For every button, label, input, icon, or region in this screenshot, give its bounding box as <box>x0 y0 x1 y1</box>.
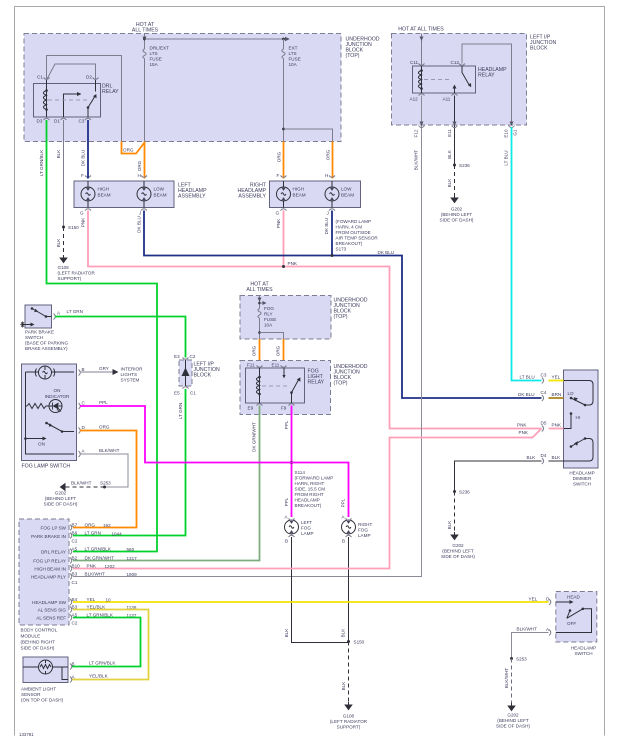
junction block internal arrow <box>185 360 187 386</box>
svg-text:B: B <box>285 539 288 544</box>
wire C1 to D2 inner loop <box>47 64 96 80</box>
svg-text:FOG: FOG <box>264 306 274 311</box>
svg-text:D4: D4 <box>541 453 547 458</box>
svg-text:LT GRN: LT GRN <box>85 531 101 536</box>
svg-text:PPL: PPL <box>99 400 108 405</box>
wire BLK/WHT headlamp switch to S253 <box>512 633 549 659</box>
ground G202 lower (behind left side of dash) <box>451 532 458 540</box>
svg-text:SYSTEM: SYSTEM <box>121 378 140 383</box>
svg-text:LOW: LOW <box>341 187 352 192</box>
svg-text:C11: C11 <box>410 60 419 65</box>
svg-text:RLY: RLY <box>264 312 273 317</box>
left fog lamp <box>285 520 299 534</box>
svg-text:C4: C4 <box>541 390 547 395</box>
BCM pin A5 lower <box>70 615 72 621</box>
svg-text:LIGHTS: LIGHTS <box>121 372 138 377</box>
feed arrow <box>143 37 147 42</box>
svg-text:G1: G1 <box>513 129 518 136</box>
fog relay mechanical link <box>262 385 288 387</box>
park brake actuator <box>23 324 32 326</box>
svg-text:HARN, 4 CM: HARN, 4 CM <box>336 225 363 230</box>
svg-text:F: F <box>277 173 280 178</box>
svg-text:B: B <box>72 662 75 667</box>
fog relay switch <box>284 368 299 403</box>
svg-text:B10: B10 <box>72 564 81 569</box>
svg-text:S253: S253 <box>100 481 111 486</box>
DRL relay mechanical link <box>48 99 88 101</box>
svg-text:BODY CONTROL: BODY CONTROL <box>21 628 58 633</box>
svg-text:HEADLAMP SW: HEADLAMP SW <box>32 600 67 605</box>
svg-text:560: 560 <box>127 547 135 552</box>
svg-text:C3: C3 <box>541 373 547 378</box>
wire PPL from F9 to left fog lamp <box>291 406 293 518</box>
svg-text:BLK: BLK <box>284 628 289 638</box>
svg-text:LT GRN: LT GRN <box>178 403 183 419</box>
svg-text:LT GRN/BLK: LT GRN/BLK <box>39 149 44 176</box>
indicator resistor <box>27 404 49 409</box>
svg-text:BLK/WHT: BLK/WHT <box>71 481 92 486</box>
right fog lamp <box>342 520 356 534</box>
svg-text:S236: S236 <box>459 163 470 168</box>
svg-text:DK GRN/WHT: DK GRN/WHT <box>252 422 257 452</box>
svg-text:(TOP): (TOP) <box>334 381 348 387</box>
relay K3 FOG LIGHT RELAY box <box>246 368 305 403</box>
indicator LED <box>49 400 63 413</box>
wire ORG to right high beam pin F <box>283 142 285 179</box>
svg-text:S150: S150 <box>68 225 79 230</box>
svg-text:LAMP: LAMP <box>358 533 371 538</box>
wire GRY to interior lights <box>80 371 113 373</box>
pin C11 <box>419 64 425 66</box>
dimmer lower arm <box>571 439 585 447</box>
svg-text:SWITCH: SWITCH <box>573 482 591 487</box>
headlamp switch internals <box>556 601 570 603</box>
pin E9 <box>257 404 263 406</box>
headlamp dimmer switch box <box>564 370 599 468</box>
pin A right fog <box>346 519 352 521</box>
wire C12 loop to block exit <box>462 44 512 125</box>
svg-text:E9: E9 <box>248 406 254 411</box>
svg-text:DIMMER: DIMMER <box>573 476 592 481</box>
svg-text:INTERIOR: INTERIOR <box>121 367 144 372</box>
svg-text:E11: E11 <box>447 129 452 137</box>
wire BLK/WHT dashed to G202 <box>68 486 105 488</box>
wire PNK from left G to dimmer D5 <box>88 211 542 429</box>
svg-text:HI: HI <box>576 415 581 420</box>
svg-text:PNK: PNK <box>517 423 527 428</box>
DRL relay energize arrow from D1 <box>64 94 78 117</box>
svg-text:BLK/WHT: BLK/WHT <box>517 627 538 632</box>
svg-text:FOG: FOG <box>301 526 311 531</box>
pin C3 dimmer <box>542 378 544 384</box>
svg-text:BLK: BLK <box>447 178 452 188</box>
svg-text:BLK: BLK <box>341 681 346 691</box>
wire from DRL/EXT fuse down to box bottom <box>144 59 146 142</box>
wire LT BLU from block to dimmer C3 <box>512 127 542 381</box>
ground G202 (behind left side of dash) left <box>61 484 69 491</box>
svg-text:(FOWARD LAMP: (FOWARD LAMP <box>336 219 372 224</box>
node bus stub arrow <box>258 302 261 305</box>
underhood junction block (top) fog relay outer box <box>240 361 368 415</box>
svg-text:OFF: OFF <box>567 621 576 626</box>
wire from EXT fuse down <box>283 59 285 142</box>
splice S114 <box>290 461 293 464</box>
svg-text:PNK: PNK <box>87 564 97 569</box>
BCM internal labels <box>31 526 67 621</box>
svg-text:BLK: BLK <box>56 238 61 248</box>
svg-text:SIDE, 15.5 CM: SIDE, 15.5 CM <box>295 487 326 492</box>
svg-text:(BASE OF PARKING: (BASE OF PARKING <box>25 341 68 346</box>
svg-text:FOG LP SW: FOG LP SW <box>41 526 67 531</box>
svg-text:DK BLU: DK BLU <box>378 250 395 255</box>
svg-text:(TOP): (TOP) <box>334 314 348 320</box>
wire PNK pigtail D5 <box>549 428 564 430</box>
svg-text:LAMP: LAMP <box>301 531 314 536</box>
node junction on EXT fuse wire <box>282 128 285 131</box>
ground G108 (left radiator support) <box>60 255 67 263</box>
pin A ambient sensor <box>70 677 72 683</box>
fog switch toggle arm <box>47 423 75 432</box>
svg-text:C1: C1 <box>72 580 78 585</box>
wire ORG to right low beam pin H <box>332 142 334 179</box>
svg-text:SWITCH: SWITCH <box>574 651 592 656</box>
svg-text:AL SENS REF: AL SENS REF <box>36 616 66 621</box>
svg-text:HEADLAMP: HEADLAMP <box>571 646 596 651</box>
node HOT AT ALL TIMES (fog) <box>246 282 273 294</box>
bulb right HIGH BEAM <box>277 181 291 208</box>
pin C1 <box>44 78 50 80</box>
svg-text:H: H <box>138 173 141 178</box>
svg-text:B4: B4 <box>72 597 78 602</box>
svg-text:BLK: BLK <box>447 520 452 530</box>
svg-text:HEADLAMP RLY: HEADLAMP RLY <box>31 575 66 580</box>
svg-text:INDICATOR: INDICATOR <box>45 394 71 399</box>
svg-text:RIGHT: RIGHT <box>358 522 372 527</box>
svg-text:RELAY: RELAY <box>308 380 325 386</box>
BCM pin A5 <box>70 549 72 555</box>
wire ORG to left low beam pin H <box>144 142 146 179</box>
svg-text:BEAM: BEAM <box>98 193 111 198</box>
svg-text:LOW: LOW <box>154 187 165 192</box>
wire DK BLU from right J to S173 <box>331 211 333 256</box>
svg-text:SIDE OF DASH): SIDE OF DASH) <box>440 218 474 223</box>
fog switch illumination bulb <box>35 366 55 379</box>
svg-text:BLK/WHT: BLK/WHT <box>414 150 419 171</box>
svg-text:ALL TIMES: ALL TIMES <box>132 28 159 34</box>
wire YEL pigtail C3 <box>549 380 564 382</box>
BCM pin B4 <box>70 599 72 605</box>
svg-text:1202: 1202 <box>105 564 116 569</box>
wire BLK/WHT dashed to G202 <box>511 659 513 704</box>
svg-text:F9: F9 <box>281 406 287 411</box>
svg-text:HIGH BEAM IN: HIGH BEAM IN <box>34 567 66 572</box>
fog switch ON line <box>26 438 44 440</box>
svg-text:A12: A12 <box>410 97 419 102</box>
wire BLK/WHT from A12 to BCM B3 <box>73 96 422 577</box>
svg-text:LTS: LTS <box>150 51 158 56</box>
wire DK BLU from left J to dimmer C4 <box>144 211 542 399</box>
wire LT GRN/BLK from DRL relay D3 <box>47 120 158 552</box>
svg-text:LT GRN: LT GRN <box>67 309 83 314</box>
svg-text:C2: C2 <box>72 621 78 626</box>
pin A park brake <box>54 314 56 320</box>
pin D1 <box>61 118 67 120</box>
svg-text:C1: C1 <box>190 391 196 396</box>
dimmer lower contact path <box>564 439 594 462</box>
park brake switch arm <box>32 309 52 317</box>
svg-text:S173: S173 <box>336 247 347 252</box>
svg-text:PNK: PNK <box>519 430 529 435</box>
svg-text:10A: 10A <box>264 323 273 328</box>
wire ORG jog from DRL relay output to fuse feed <box>122 142 145 154</box>
BCM pin B2 <box>70 558 72 564</box>
svg-text:BEAM: BEAM <box>293 193 306 198</box>
underhood junction block (top) fog fuse box <box>240 296 368 340</box>
svg-text:SIDE OF DASH): SIDE OF DASH) <box>496 724 530 729</box>
bus continuation arrow <box>285 37 290 41</box>
svg-text:MODULE: MODULE <box>21 634 41 639</box>
svg-text:S253: S253 <box>516 657 527 662</box>
svg-text:G: G <box>80 211 84 216</box>
svg-text:B2: B2 <box>72 556 78 561</box>
svg-text:(LEFT RADIATOR: (LEFT RADIATOR <box>330 719 368 724</box>
svg-text:AMBIENT LIGHT: AMBIENT LIGHT <box>21 687 56 692</box>
wire BRN pigtail C4 <box>549 397 564 399</box>
svg-text:LT BLU: LT BLU <box>504 150 509 165</box>
right headlamp assembly box <box>270 181 361 208</box>
wire feed into fog rly fuse <box>259 296 261 309</box>
wire LT GRN/BLK BCM to ambient sensor B <box>72 618 141 667</box>
svg-text:C2: C2 <box>190 354 196 359</box>
svg-text:DK BLU: DK BLU <box>81 150 86 167</box>
wire BLK dashed to G202 lower <box>454 492 456 533</box>
ambient light sensor box <box>23 657 68 683</box>
fog relay coil <box>256 368 259 403</box>
svg-text:PNK: PNK <box>81 217 86 227</box>
wire LT GRN park brake to junction block to BCM B6 <box>55 317 186 358</box>
svg-text:SIDE OF DASH): SIDE OF DASH) <box>441 554 475 559</box>
body control module box <box>19 519 69 651</box>
svg-text:G: G <box>276 211 280 216</box>
wire BLK right fog to S150 <box>348 537 350 642</box>
svg-text:(LEFT RADIATOR: (LEFT RADIATOR <box>58 271 96 276</box>
wire DK BLU from DRL relay C3 to left high beam F <box>87 120 89 179</box>
dimmer LO arm <box>571 398 585 405</box>
wire C1 upper loop to box exit <box>47 56 122 142</box>
svg-text:PARK BRAKE IN: PARK BRAKE IN <box>31 534 66 539</box>
dimmer HI contact <box>564 414 572 429</box>
svg-text:ASSEMBLY: ASSEMBLY <box>178 194 206 200</box>
wire BLK dashed to G108 <box>348 642 350 703</box>
BCM pin B3 <box>70 574 72 580</box>
svg-text:B: B <box>82 367 85 372</box>
svg-text:BEAM: BEAM <box>341 193 354 198</box>
svg-text:HEADLAMP: HEADLAMP <box>295 498 320 503</box>
svg-text:DK BLU: DK BLU <box>518 392 535 397</box>
headlamp switch box <box>556 592 597 657</box>
svg-text:HIGH: HIGH <box>293 187 304 192</box>
pin C4 dimmer <box>542 395 544 401</box>
bulb left HIGH BEAM <box>81 181 95 208</box>
svg-text:FOG LAMP SWITCH: FOG LAMP SWITCH <box>22 464 71 470</box>
svg-text:F12: F12 <box>414 129 419 137</box>
pin E3 / C2 <box>183 358 189 360</box>
svg-text:HIGH: HIGH <box>98 187 109 192</box>
svg-text:DK BLU: DK BLU <box>137 216 142 233</box>
headlamp relay coil <box>418 66 421 93</box>
wire DK GRN/WHT from E9 to BCM B2 <box>73 406 260 561</box>
wire ORG fuse to fog relay F11 <box>259 339 261 366</box>
BCM pin B10 <box>70 566 72 572</box>
svg-text:LT GRN/BLK: LT GRN/BLK <box>89 661 116 666</box>
fuse FOG RLY 10A <box>258 309 261 319</box>
svg-text:E5: E5 <box>174 391 180 396</box>
svg-text:BLK/WHT: BLK/WHT <box>504 668 509 689</box>
svg-text:ORG: ORG <box>99 425 110 430</box>
svg-text:PARK BRAKE: PARK BRAKE <box>25 330 54 335</box>
splice S253 lower <box>510 657 513 660</box>
svg-text:SUPPORT): SUPPORT) <box>58 276 82 281</box>
bulb left LOW BEAM <box>137 181 151 208</box>
svg-text:F: F <box>81 173 84 178</box>
svg-text:B7: B7 <box>72 523 78 528</box>
pin A12 <box>419 94 425 96</box>
fog switch ON INDICATOR <box>45 388 71 399</box>
svg-text:J: J <box>327 211 329 216</box>
svg-text:G202: G202 <box>55 491 67 496</box>
svg-text:SWITCH: SWITCH <box>25 335 43 340</box>
svg-text:BLK/WHT: BLK/WHT <box>85 572 106 577</box>
headlamp relay switch <box>455 66 470 93</box>
svg-text:(ON TOP OF DASH): (ON TOP OF DASH) <box>21 698 64 703</box>
wire BLK left fog to S150 <box>292 537 349 643</box>
svg-text:DK GRN/WHT: DK GRN/WHT <box>85 556 115 561</box>
svg-text:SENSOR: SENSOR <box>21 692 41 697</box>
svg-text:H: H <box>325 173 328 178</box>
pin B left fog <box>289 535 295 537</box>
pin C3 <box>85 118 91 120</box>
splice S173 <box>331 254 334 257</box>
wire PNK from BCM B10 to D5 <box>73 429 542 569</box>
headlamp relay mechanical link <box>424 79 452 81</box>
svg-text:192: 192 <box>103 523 111 528</box>
svg-text:ORG: ORG <box>252 345 257 356</box>
svg-text:LT GRN/BLK: LT GRN/BLK <box>85 547 112 552</box>
svg-text:ASSEMBLY: ASSEMBLY <box>238 194 266 200</box>
wire BLK/WHT fog switch to S253 <box>80 454 128 487</box>
svg-text:A11: A11 <box>443 97 451 102</box>
svg-text:E11: E11 <box>272 363 280 368</box>
wire feed to C11 <box>421 34 423 67</box>
svg-text:ORG: ORG <box>326 149 331 160</box>
svg-text:SUPPORT): SUPPORT) <box>337 725 361 730</box>
svg-text:G108: G108 <box>58 265 70 270</box>
splice S150 <box>62 226 65 229</box>
pin B fog switch <box>79 370 81 376</box>
svg-text:D5: D5 <box>541 421 547 426</box>
pin E11 <box>281 366 287 368</box>
svg-text:ON: ON <box>38 442 45 447</box>
svg-text:PPL: PPL <box>284 420 289 429</box>
wire BLK from A11 to S236 <box>454 96 456 166</box>
svg-text:HEADLAMP: HEADLAMP <box>569 471 594 476</box>
pin A headlamp switch <box>549 630 551 636</box>
fuse EXT LTS 10A <box>282 39 285 59</box>
pin C12 <box>459 64 465 66</box>
park brake switch box <box>25 305 52 328</box>
block exit pin E10/G1 <box>509 126 515 128</box>
ground G202 bottom (behind left side of dash) <box>508 703 515 711</box>
DRL relay coil <box>43 80 46 117</box>
svg-text:D2: D2 <box>86 75 92 80</box>
svg-text:133781: 133781 <box>19 732 34 737</box>
svg-text:E10: E10 <box>504 129 509 138</box>
pin D headlamp switch <box>549 599 551 605</box>
svg-text:G202: G202 <box>451 207 463 212</box>
svg-text:BLK/WHT: BLK/WHT <box>99 448 120 453</box>
svg-text:RELAY: RELAY <box>102 89 119 95</box>
bus junction dot right <box>282 38 285 41</box>
svg-text:BLK: BLK <box>56 149 61 159</box>
svg-text:PPL: PPL <box>284 497 289 506</box>
svg-text:G202: G202 <box>452 543 464 548</box>
svg-text:F11: F11 <box>247 363 255 368</box>
left I/P junction block box (headlamp relay) <box>392 34 557 126</box>
svg-text:D3: D3 <box>37 119 43 124</box>
svg-text:YEL: YEL <box>87 597 96 602</box>
svg-text:YEL: YEL <box>552 375 561 380</box>
svg-text:S150: S150 <box>354 640 365 645</box>
svg-text:PNK: PNK <box>276 218 281 228</box>
svg-text:FROM RIGHT: FROM RIGHT <box>295 492 324 497</box>
splice S253 <box>103 486 106 489</box>
svg-text:FUSE: FUSE <box>289 57 301 62</box>
svg-text:ORG: ORG <box>276 345 281 356</box>
svg-text:(BEHIND LEFT: (BEHIND LEFT <box>497 718 529 723</box>
pin B ambient sensor <box>70 664 72 670</box>
svg-text:C12: C12 <box>451 60 460 65</box>
splice S150 lower <box>347 640 350 643</box>
pin D5 dimmer <box>542 426 544 432</box>
svg-text:HEAD: HEAD <box>567 595 580 600</box>
svg-text:LTS: LTS <box>289 51 297 56</box>
node HOT AT ALL TIMES (left) <box>132 22 159 34</box>
svg-text:1317: 1317 <box>127 556 138 561</box>
svg-text:LT BLU: LT BLU <box>520 375 535 380</box>
svg-text:DK BLU: DK BLU <box>324 218 329 235</box>
pin B right fog <box>346 535 352 537</box>
svg-text:1909: 1909 <box>127 572 138 577</box>
svg-text:AIR TEMP SENSOR: AIR TEMP SENSOR <box>336 236 379 241</box>
svg-text:10: 10 <box>106 598 112 603</box>
svg-text:BEAM: BEAM <box>154 193 167 198</box>
svg-text:15A: 15A <box>150 62 159 67</box>
svg-text:C3: C3 <box>79 119 85 124</box>
pin D3 <box>44 118 50 120</box>
wire branch to right low beam <box>284 129 333 142</box>
svg-text:B: B <box>342 539 345 544</box>
splice S236 <box>453 164 456 167</box>
svg-text:BLK: BLK <box>552 455 562 460</box>
svg-text:BLOCK: BLOCK <box>194 373 212 379</box>
svg-text:S114: S114 <box>295 470 306 475</box>
left I/P junction block small pass-through <box>179 360 220 386</box>
svg-text:(BEHIND LEFT: (BEHIND LEFT <box>45 496 77 501</box>
wire ORG fog switch to BCM B7 <box>73 431 137 528</box>
underhood junction block (top) box U1 <box>24 34 380 142</box>
ambient sensor element <box>23 660 68 680</box>
svg-text:GRY: GRY <box>99 366 109 371</box>
